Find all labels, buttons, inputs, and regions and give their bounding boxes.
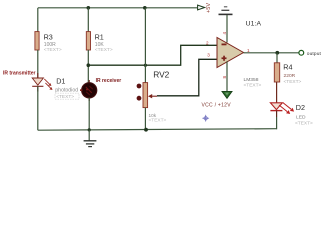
svg-text:3: 3	[207, 53, 210, 58]
svg-text:LM358: LM358	[244, 77, 259, 83]
svg-text:photodiod: photodiod	[55, 88, 78, 94]
svg-text:<TEXT>: <TEXT>	[149, 118, 167, 124]
node junction rail at RV2	[144, 128, 148, 132]
power terminal +5V arrow	[198, 3, 212, 13]
svg-text:IR transmitter: IR transmitter	[3, 70, 36, 76]
power terminal VCC arrow down	[222, 91, 232, 98]
wire D1 to bottom rail	[37, 86, 39, 130]
phototransistor IR receiver	[80, 80, 97, 101]
svg-text:+5V: +5V	[206, 3, 212, 13]
node dot left of RV2 upper	[137, 84, 142, 89]
ground	[84, 130, 97, 147]
node junction on rail at R1 column	[87, 6, 91, 10]
svg-text:RV2: RV2	[153, 69, 169, 79]
svg-text:220R: 220R	[284, 73, 296, 79]
svg-text:D2: D2	[296, 103, 305, 112]
potentiometer RV2	[143, 69, 170, 123]
wire op-amp output pin 1	[244, 52, 299, 54]
op-amp U1:A	[217, 21, 262, 89]
node junction pin2 wire at RV2 column	[144, 64, 147, 67]
svg-text:<TEXT>: <TEXT>	[284, 79, 302, 85]
svg-text:<TEXT>: <TEXT>	[295, 121, 313, 127]
svg-text:U1:A: U1:A	[246, 21, 262, 28]
wire op-amp pin 4 to power bar	[226, 15, 228, 43]
svg-text:8: 8	[222, 76, 227, 79]
diode D1 IR LED	[32, 73, 79, 100]
wire junction to R4	[276, 53, 278, 63]
svg-text:output: output	[307, 51, 322, 57]
wire RV2 wiper to op-amp pin3	[157, 59, 217, 96]
svg-text:2: 2	[206, 41, 209, 46]
resistor R3	[35, 32, 62, 54]
node dot left of RV2 lower	[137, 96, 142, 101]
resistor R1	[86, 32, 113, 54]
node junction R1/receiver to op-amp	[87, 63, 91, 67]
wire junction row to op-amp pin2 riser	[88, 45, 217, 65]
svg-text:4: 4	[222, 32, 227, 35]
wire bottom ground rail	[38, 129, 277, 131]
wire top +5V rail	[38, 7, 197, 9]
svg-text:IR receiver: IR receiver	[96, 78, 122, 84]
wire R3 to D1	[37, 50, 39, 78]
svg-text:LED: LED	[296, 115, 306, 121]
wire rail down to RV2	[144, 8, 146, 83]
svg-text:VCC / +12V: VCC / +12V	[202, 102, 232, 108]
power bar symbol above op-amp pin 4	[219, 7, 233, 15]
wire op-amp pin 8 down	[226, 61, 228, 92]
wire receiver to bottom rail	[88, 98, 90, 130]
resistor R4	[274, 63, 301, 85]
wire D2 to bottom rail	[276, 111, 278, 117]
wire rail to R1	[87, 8, 89, 32]
svg-text:<TEXT>: <TEXT>	[95, 47, 113, 53]
marker blue diamond	[203, 115, 209, 121]
node junction on rail at RV2 column	[143, 6, 147, 10]
svg-text:10k: 10k	[149, 113, 157, 118]
node junction rail at ground	[88, 128, 91, 131]
svg-text:D1: D1	[56, 77, 65, 86]
node junction at R4 top	[275, 51, 279, 55]
svg-text:1: 1	[247, 48, 250, 53]
svg-text:R1: R1	[95, 32, 104, 41]
diode D2 LED	[270, 103, 313, 127]
terminal output	[299, 50, 322, 57]
wire left column from rail to R3	[37, 8, 39, 32]
svg-text:<TEXT>: <TEXT>	[56, 94, 74, 100]
svg-text:<TEXT>: <TEXT>	[244, 82, 262, 88]
wire RV2 bottom to rail	[144, 108, 146, 131]
svg-text:R3: R3	[44, 32, 53, 41]
svg-text:<TEXT>: <TEXT>	[44, 47, 62, 53]
wire R1 to junction	[87, 50, 89, 83]
svg-text:R4: R4	[283, 63, 292, 72]
wire R4 to D2	[276, 82, 278, 103]
